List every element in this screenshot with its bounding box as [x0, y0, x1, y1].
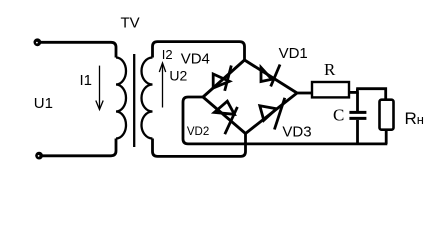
svg-text:Rн: Rн: [405, 109, 424, 128]
bridge side bottom-right (VD3 branch): [246, 93, 298, 134]
resistor Rn load: [380, 100, 394, 130]
wire node C to Rn top: [356, 89, 386, 100]
svg-text:I2: I2: [162, 47, 173, 62]
svg-text:VD3: VD3: [282, 124, 311, 141]
svg-text:VD1: VD1: [279, 45, 308, 62]
arrow I1 current direction: [96, 66, 103, 110]
wire bridge right vertex to resistor R: [297, 92, 312, 95]
capacitor C bottom lead: [356, 120, 359, 144]
wire resistor R to node C: [349, 91, 359, 94]
wire secondary top to bridge top vertex: [153, 42, 245, 60]
terminal bottom-left input: [35, 152, 43, 160]
svg-text:VD4: VD4: [181, 50, 210, 67]
svg-text:U1: U1: [34, 95, 53, 112]
transformer core: [133, 54, 135, 147]
wire bridge left vertex to negative rail: [183, 97, 387, 144]
bridge side left-bottom (VD2 branch): [203, 97, 246, 134]
bridge side left-top (VD4 branch): [203, 60, 245, 97]
terminal top-left input: [34, 38, 42, 46]
wire bottom-left input to primary winding: [42, 139, 116, 156]
svg-text:R: R: [324, 60, 336, 79]
diode VD3: [260, 98, 285, 130]
wire secondary bottom to bridge bottom vertex: [153, 134, 246, 157]
resistor R: [312, 82, 349, 97]
wire top-left input to primary winding: [41, 42, 117, 57]
svg-text:U2: U2: [169, 67, 187, 83]
resistor Rn bottom lead: [385, 130, 388, 144]
svg-text:C: C: [333, 105, 344, 124]
svg-text:TV: TV: [121, 15, 140, 32]
capacitor C top lead: [356, 92, 359, 111]
transformer TV secondary winding: [142, 58, 153, 139]
diode VD4: [213, 66, 231, 91]
arrow U2 voltage direction: [159, 63, 165, 108]
diode VD1: [261, 65, 280, 87]
svg-text:I1: I1: [80, 72, 93, 89]
transformer TV primary winding: [116, 58, 126, 139]
bridge side top-right (VD1 branch): [245, 60, 298, 93]
svg-text:VD2: VD2: [187, 126, 209, 138]
wire node C jog up: [356, 89, 359, 94]
diode VD2: [214, 101, 237, 134]
capacitor C plates: [349, 112, 366, 118]
